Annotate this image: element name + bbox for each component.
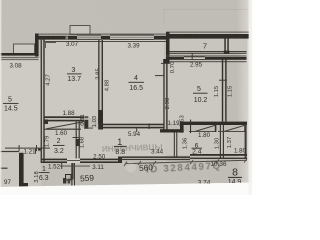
tick between 1.15 dims [219, 79, 227, 81]
window of room 3 [77, 35, 101, 40]
divider wall rooms 3/4 [98, 40, 99, 124]
door swing 2 bottom line [218, 131, 246, 132]
divider wall rooms 3/4 dark lower chunk [98, 110, 103, 130]
hall 2 right wall dark segment [76, 139, 80, 146]
door gap in bottom wall [67, 158, 80, 163]
loggia bottom double line [170, 51, 247, 52]
tick on room 1 top wall [149, 124, 150, 130]
scanned page background (slightly slanted bottom edge) [0, 0, 252, 188]
door post swing 1 [215, 125, 217, 132]
left apartment top wall inner face line 1 [0, 57, 39, 58]
lower-left apartment room interior [0, 152, 41, 186]
lower-left apartment: thick vertical wall [19, 153, 24, 187]
loggia 7 interior [169, 38, 247, 53]
corridor wall vertical connector [180, 122, 184, 133]
room 3 door post [84, 120, 88, 129]
bottom dimension line with ticks [126, 160, 247, 163]
main top wall dark band rooms 3-4 [39, 36, 167, 40]
lower apartment door hinge rect [66, 175, 72, 181]
top-right exterior wall dark band [166, 34, 249, 39]
right section wall above corridor 6 [182, 122, 247, 125]
top-right exterior wall outer line [166, 31, 249, 34]
room 3 door swing diagonal [47, 122, 84, 129]
left apartment room interior [0, 58, 41, 151]
bottom wall step [118, 157, 122, 164]
left apartment top wall [0, 53, 39, 56]
main top wall inner face line [44, 41, 166, 42]
lower apartment dark marks at cut edge [63, 178, 66, 184]
room 1 top wall double line [100, 124, 164, 126]
door swing 1 bottom line [189, 131, 216, 132]
door post swing 2 [244, 125, 246, 132]
lower apartment door lines below gap [71, 163, 72, 186]
dim tick d [216, 159, 219, 163]
hall 2 lower face line of top wall [44, 129, 81, 130]
white cut band at bottom of scan [0, 183, 252, 195]
left scan edge light strip [0, 0, 1, 195]
dim line 1.21 [5, 148, 50, 149]
watermark logo blob [126, 163, 136, 173]
lower-left 1.21 tick [35, 149, 36, 154]
left shared wall (left apt / room 3 / hall 2) double line [41, 37, 42, 163]
main top wall outer face line [39, 34, 167, 35]
lower-left apartment: small wall left [0, 168, 8, 169]
ghost rectangle in background top-right [164, 10, 252, 26]
loggia divider wall [224, 39, 226, 55]
room 4 interior [102, 40, 164, 125]
small notch in wall band left of room 3 window [66, 36, 69, 39]
hall top-left corner post [44, 120, 48, 125]
tick crossing wall at 190.5 [190, 120, 191, 134]
loggia left wall [166, 32, 170, 63]
room 5 right wall double line [222, 60, 223, 122]
room 3 bottom wall double line [44, 116, 84, 118]
559 dim tick c [73, 171, 74, 180]
room 5 interior [167, 61, 223, 122]
corridor wall segment left of room 6 [160, 129, 184, 132]
lower-left apartment: wall under 1.21 [0, 151, 19, 152]
apartment bottom wall mid part [122, 156, 190, 158]
vertical (rotated) dimension texts [34, 61, 234, 183]
door swing 2 below right wall [224, 125, 246, 131]
tick on shared wall near 1.21 [38, 149, 41, 151]
plan right edge wall [245, 124, 247, 158]
dim tick e [244, 159, 247, 163]
apartment bottom wall right part [190, 154, 247, 156]
hall 2 right wall double line [76, 120, 77, 159]
wall right of room 6 double line [220, 125, 221, 159]
wall jog between left apartment and main top wall [35, 34, 39, 57]
dim tick b [153, 161, 156, 165]
room 1 interior [78, 128, 166, 161]
dim tick a [138, 161, 141, 165]
vent bump above room 3 window [70, 26, 90, 35]
vent bump above left apartment wall [14, 44, 35, 54]
window of room 5 [184, 56, 205, 60]
room 3 interior [44, 40, 100, 118]
exterior wall below loggia: dark band [170, 57, 247, 60]
corridor 6 interior [164, 131, 247, 155]
559 dim tick b [73, 163, 74, 171]
tick on hall 2 right wall [73, 137, 80, 138]
hall 2 interior [44, 120, 78, 160]
559 dim line [60, 165, 90, 168]
dim 0.70 lower tick [155, 75, 164, 77]
door swing 1 below right wall [195, 125, 216, 131]
window of room 4 [110, 35, 154, 40]
room 6 left wall double line [174, 133, 175, 158]
apartment bottom wall left part [41, 159, 119, 161]
lower-left apartment: bottom dark wall [19, 183, 28, 187]
window tick room 5 [192, 54, 193, 61]
dim tick c [190, 160, 193, 164]
exterior wall below loggia: outer line [166, 56, 247, 57]
tick below room 1 top wall [136, 128, 137, 132]
dim 0.70 tick [161, 62, 170, 64]
560 dim tick left [124, 162, 127, 167]
left apartment top wall inner face line 2 [0, 58, 39, 61]
white page base [0, 0, 252, 195]
divider wall rooms 4/5 dark top chunk [163, 59, 169, 64]
559 dim tick a [61, 163, 62, 169]
divider wall rooms 4/5 [163, 59, 164, 132]
scan noise overlay [0, 0, 1, 1]
exterior wall below loggia: inner face line [167, 61, 247, 62]
white cut band right edge [249, 0, 252, 195]
nested corner line inside top-left step [46, 43, 57, 49]
